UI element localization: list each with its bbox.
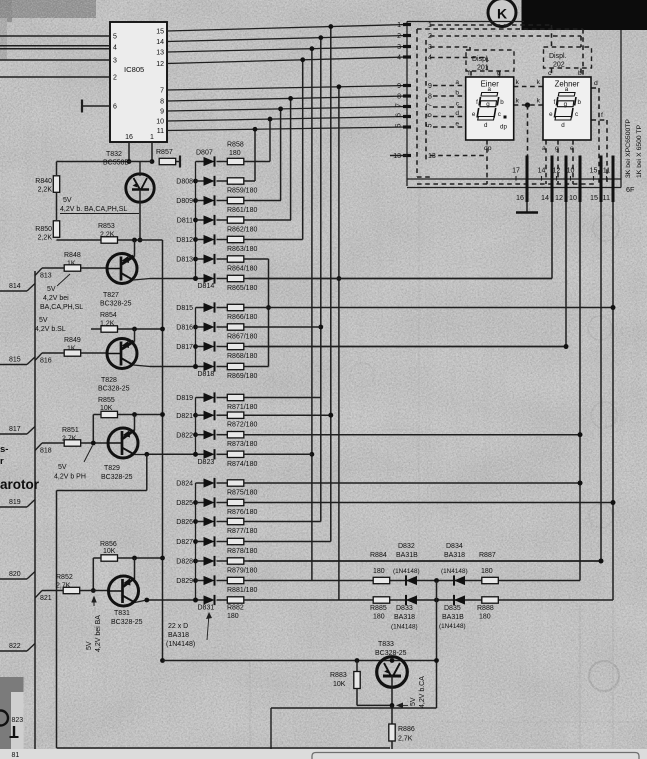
svg-text:7: 7 xyxy=(396,103,403,107)
svg-text:D822: D822 xyxy=(176,432,193,439)
node display input 2 xyxy=(403,34,411,37)
wire row output xyxy=(244,560,601,562)
svg-text:817: 817 xyxy=(9,426,21,433)
resistor R867 xyxy=(227,324,244,330)
wire row output xyxy=(244,326,321,328)
svg-text:d: d xyxy=(594,80,598,87)
svg-text:D823: D823 xyxy=(198,459,215,466)
wire segment drop from IC pin10 xyxy=(269,119,271,161)
wire segment drop from IC pin9 xyxy=(280,109,282,201)
wire segment drop from IC pin12 xyxy=(302,60,304,240)
diode D814 xyxy=(196,278,204,280)
wire row output xyxy=(244,580,580,582)
diode D812 xyxy=(196,239,204,241)
junction k common xyxy=(525,102,530,107)
wire T831 emitter to row D831 xyxy=(135,600,147,603)
diode D816 xyxy=(196,326,204,328)
resistor R879 xyxy=(227,558,244,564)
svg-text:dp: dp xyxy=(500,124,507,131)
wire row output xyxy=(244,397,321,399)
resistor R861 xyxy=(227,197,244,203)
svg-text:815: 815 xyxy=(9,357,21,364)
resistor R869 xyxy=(227,363,244,369)
diode D811 xyxy=(196,219,204,221)
svg-text:D835: D835 xyxy=(444,605,461,612)
svg-text:arotor: arotor xyxy=(0,477,40,492)
svg-text:R864/180: R864/180 xyxy=(227,266,257,273)
svg-text:BA31B: BA31B xyxy=(396,552,418,559)
diode D826 xyxy=(196,521,204,523)
svg-text:BA318: BA318 xyxy=(444,552,465,559)
node K circle xyxy=(488,0,516,27)
svg-text:K: K xyxy=(497,6,507,22)
svg-text:3: 3 xyxy=(113,58,117,65)
svg-text:5V: 5V xyxy=(47,286,56,293)
svg-text:22 x D: 22 x D xyxy=(168,623,188,630)
svg-text:d: d xyxy=(561,122,565,129)
svg-text:R876/180: R876/180 xyxy=(227,509,257,516)
svg-text:5V: 5V xyxy=(63,197,72,204)
svg-text:6F: 6F xyxy=(626,185,635,194)
node display input 3 xyxy=(403,45,411,48)
svg-text:D816: D816 xyxy=(176,325,193,332)
svg-text:4,2V b.CA: 4,2V b.CA xyxy=(419,676,426,708)
svg-text:81: 81 xyxy=(12,752,20,759)
dashed segment lines a-e into Displ.201 xyxy=(433,85,465,87)
wire diode anode bus xyxy=(195,162,197,279)
svg-text:7: 7 xyxy=(160,88,164,95)
wire R853 node to T827 collector and right rail xyxy=(118,239,163,241)
svg-text:5V: 5V xyxy=(58,464,67,471)
wire row output xyxy=(244,180,255,182)
svg-text:6: 6 xyxy=(427,113,434,117)
svg-text:12: 12 xyxy=(555,193,563,202)
svg-text:15: 15 xyxy=(590,168,598,175)
resistor R868 xyxy=(227,343,244,349)
wire R856 node xyxy=(118,557,163,559)
wires IC pins 15,14,13,12 to display inputs 1,2,3,4 xyxy=(167,25,407,32)
svg-text:Displ.: Displ. xyxy=(472,56,490,63)
svg-text:D831: D831 xyxy=(198,605,215,612)
ground at display pin 16 xyxy=(526,202,528,212)
svg-text:D826: D826 xyxy=(176,519,193,526)
node display input 7 xyxy=(403,105,411,108)
svg-text:R868/180: R868/180 xyxy=(227,353,257,360)
wire row output xyxy=(244,307,613,309)
svg-text:820: 820 xyxy=(9,571,21,578)
resistor R874 xyxy=(227,451,244,457)
resistor R857 xyxy=(159,158,176,164)
svg-text:10: 10 xyxy=(567,168,575,175)
svg-text:d: d xyxy=(455,110,459,117)
svg-text:9: 9 xyxy=(428,83,432,90)
diode D829 xyxy=(196,580,204,582)
wire base T831 xyxy=(80,590,110,592)
svg-text:R874/180: R874/180 xyxy=(227,461,257,468)
svg-text:e: e xyxy=(549,111,553,118)
svg-text:R863/180: R863/180 xyxy=(227,246,257,253)
svg-text:10K: 10K xyxy=(333,681,346,688)
svg-text:D815: D815 xyxy=(176,305,193,312)
diode D819 xyxy=(196,397,204,399)
svg-text:e: e xyxy=(472,111,476,118)
wire display pin 11 down xyxy=(612,202,614,600)
scan dark band top-left xyxy=(0,0,96,18)
svg-text:11: 11 xyxy=(603,193,610,202)
svg-text:9: 9 xyxy=(160,109,164,116)
svg-text:13: 13 xyxy=(156,50,164,57)
black panel top right xyxy=(522,0,647,30)
svg-text:14: 14 xyxy=(541,193,549,202)
svg-text:D832: D832 xyxy=(398,543,415,550)
sub-block outline bottom xyxy=(271,707,437,709)
svg-text:8: 8 xyxy=(397,94,401,101)
svg-text:T831: T831 xyxy=(114,610,130,617)
svg-text:T827: T827 xyxy=(103,292,119,299)
display pin 14 stub xyxy=(551,156,554,203)
wire segment bracket D813-D818 xyxy=(268,259,270,367)
op-amp/driver IC805 xyxy=(110,22,167,142)
resistor R875 xyxy=(227,480,244,486)
resistor R865 xyxy=(227,275,244,281)
wire right rail down to bottom bus xyxy=(162,240,164,661)
resistor R866 xyxy=(227,304,244,310)
svg-text:814: 814 xyxy=(9,283,21,290)
wire segment drop from IC pin8 xyxy=(290,98,292,220)
node display input 13 xyxy=(403,154,411,157)
svg-text:4,2V b.SL: 4,2V b.SL xyxy=(35,326,66,333)
dashed segment lines from inputs 1-4 xyxy=(430,24,552,26)
node display input 4 xyxy=(403,55,411,58)
svg-text:8: 8 xyxy=(160,99,164,106)
paper edge bottom xyxy=(0,749,647,759)
svg-text:D833: D833 xyxy=(396,605,413,612)
svg-text:(1N4148): (1N4148) xyxy=(166,641,195,648)
wire display pin 14 down to row D814 xyxy=(551,202,553,279)
svg-text:821: 821 xyxy=(40,595,52,602)
wire supply node xyxy=(57,161,153,163)
display pin 11 stub xyxy=(612,156,615,203)
svg-text:15: 15 xyxy=(156,29,164,36)
svg-text:2,2K: 2,2K xyxy=(38,187,53,194)
wire segment drop from IC pin14 xyxy=(320,38,322,522)
wire row output xyxy=(244,161,270,163)
svg-text:R873/180: R873/180 xyxy=(227,441,257,448)
svg-text:BA31B: BA31B xyxy=(442,614,464,621)
diode D808 xyxy=(196,180,204,182)
resistor R871 xyxy=(227,394,244,400)
svg-text:D814: D814 xyxy=(198,283,215,290)
svg-text:5V: 5V xyxy=(86,641,93,650)
svg-text:180: 180 xyxy=(373,568,385,575)
wire IC pin 2 xyxy=(0,76,110,78)
resistor R862 xyxy=(227,217,244,223)
svg-text:T829: T829 xyxy=(104,465,120,472)
junction D832/D834 column xyxy=(434,578,439,583)
svg-text:R871/180: R871/180 xyxy=(227,404,257,411)
svg-text:(1N4148): (1N4148) xyxy=(393,568,420,575)
svg-text:4,2V b. BA,CA,PH,SL: 4,2V b. BA,CA,PH,SL xyxy=(60,206,127,213)
svg-text:c: c xyxy=(498,111,501,118)
wire input 13 stub xyxy=(390,155,407,157)
wire R850 to R853 row xyxy=(56,239,58,241)
display Displ.201 Einer xyxy=(466,50,514,71)
svg-text:D825: D825 xyxy=(176,500,193,507)
svg-text:R867/180: R867/180 xyxy=(227,334,257,341)
svg-text:1: 1 xyxy=(150,134,154,141)
svg-text:b: b xyxy=(455,90,459,97)
wire IC pin16 down xyxy=(128,142,130,162)
diode D831 xyxy=(196,599,204,601)
svg-text:BA,CA,PH,SL: BA,CA,PH,SL xyxy=(40,304,83,311)
svg-text:16: 16 xyxy=(125,134,133,141)
svg-text:10K: 10K xyxy=(103,548,116,555)
svg-text:r: r xyxy=(0,456,4,467)
svg-text:816: 816 xyxy=(40,358,52,365)
svg-text:2,2K: 2,2K xyxy=(38,235,53,242)
svg-text:11: 11 xyxy=(603,168,610,175)
svg-text:g: g xyxy=(555,145,559,152)
svg-text:180: 180 xyxy=(373,614,385,621)
svg-text:R848: R848 xyxy=(64,252,81,259)
wire row output xyxy=(244,502,613,504)
svg-text:D813: D813 xyxy=(176,257,193,264)
svg-text:R840: R840 xyxy=(35,178,52,185)
wire row output xyxy=(244,599,613,601)
svg-text:4,2V bei: 4,2V bei xyxy=(43,295,69,302)
wire IC pin 4 (double) xyxy=(0,45,110,47)
svg-text:3: 3 xyxy=(397,44,401,51)
resistor R878 xyxy=(227,538,244,544)
display Displ.202 Zehner xyxy=(544,47,592,68)
svg-text:R862/180: R862/180 xyxy=(227,227,257,234)
svg-text:R854: R854 xyxy=(100,312,117,319)
wire base T829 xyxy=(81,442,108,444)
svg-text:R855: R855 xyxy=(98,397,115,404)
svg-text:813: 813 xyxy=(40,273,52,280)
svg-text:BA318: BA318 xyxy=(394,614,415,621)
wires IC pins 7,8,9,10,11 to display inputs 9,8,7,6,5 xyxy=(167,86,407,91)
svg-text:e: e xyxy=(455,121,459,128)
wire segment drop from IC pin7 xyxy=(338,87,340,600)
svg-text:k: k xyxy=(537,98,541,105)
wire bottom supply bus y660 xyxy=(163,660,437,662)
svg-text:d: d xyxy=(484,122,488,129)
wire T828 emitter to row D818 xyxy=(133,365,150,367)
wire segment drop from IC pin13 xyxy=(311,49,313,581)
diode D828 xyxy=(196,560,204,562)
resistor R873 xyxy=(227,432,244,438)
svg-text:5V: 5V xyxy=(410,697,417,706)
svg-text:13: 13 xyxy=(393,153,401,160)
svg-text:D808: D808 xyxy=(176,179,193,186)
wire T829 emitter return path xyxy=(146,454,148,490)
display pin 16 stub xyxy=(526,156,529,203)
svg-text:180: 180 xyxy=(481,568,493,575)
svg-text:R881/180: R881/180 xyxy=(227,587,257,594)
svg-text:k: k xyxy=(516,98,520,105)
svg-text:5: 5 xyxy=(427,123,434,127)
wire R854 node xyxy=(118,328,163,330)
resistor R858 xyxy=(227,158,244,164)
svg-text:R882: R882 xyxy=(227,605,244,612)
svg-text:D827: D827 xyxy=(176,539,193,546)
resistor R886 xyxy=(391,705,393,724)
dashed d,f lines right of Displ.202 xyxy=(592,87,600,89)
svg-text:12: 12 xyxy=(156,61,164,68)
resistor R872 xyxy=(227,412,244,418)
diode D807 xyxy=(196,161,204,163)
svg-text:D809: D809 xyxy=(176,198,193,205)
svg-text:g: g xyxy=(486,101,490,108)
svg-text:4: 4 xyxy=(113,45,117,52)
svg-text:c: c xyxy=(575,111,578,118)
svg-text:R872/180: R872/180 xyxy=(227,422,257,429)
svg-text:7: 7 xyxy=(427,103,434,107)
wire row output xyxy=(244,346,566,348)
diode D815 xyxy=(196,307,204,309)
wire IC pin 6 stub with terminator xyxy=(82,105,110,107)
resistor R876 xyxy=(227,499,244,505)
svg-text:2,7K: 2,7K xyxy=(398,736,413,743)
svg-text:D834: D834 xyxy=(446,543,463,550)
resistor R882 xyxy=(227,597,244,603)
wire row output xyxy=(244,453,312,455)
svg-text:2: 2 xyxy=(113,75,117,82)
svg-text:R877/180: R877/180 xyxy=(227,528,257,535)
wire diode anode bus xyxy=(195,308,197,367)
diode D821 xyxy=(196,414,204,416)
svg-text:R852: R852 xyxy=(56,574,73,581)
wire IC pin1 down xyxy=(151,142,153,162)
svg-text:BC558B: BC558B xyxy=(103,160,129,167)
svg-text:202: 202 xyxy=(553,62,565,69)
svg-text:D818: D818 xyxy=(198,371,215,378)
svg-text:R883: R883 xyxy=(330,672,347,679)
svg-text:10: 10 xyxy=(569,193,577,202)
resistor R864 xyxy=(227,256,244,262)
svg-text:R857: R857 xyxy=(156,149,173,156)
svg-text:2: 2 xyxy=(397,33,401,40)
diode D822 xyxy=(196,434,204,436)
wire display pin 15 down to row D828 xyxy=(600,202,602,561)
svg-text:a: a xyxy=(542,145,546,152)
resistor R877 xyxy=(227,518,244,524)
svg-text:dp: dp xyxy=(484,145,492,152)
svg-text:R885: R885 xyxy=(370,605,387,612)
diode D813 xyxy=(196,258,204,260)
svg-text:4,2V b PH: 4,2V b PH xyxy=(54,474,86,481)
diode D809 xyxy=(196,200,204,202)
svg-text:T828: T828 xyxy=(101,377,117,384)
dashed bus bottom xyxy=(417,183,595,185)
svg-text:5: 5 xyxy=(113,34,117,41)
svg-text:D819: D819 xyxy=(176,395,193,402)
svg-text:T832: T832 xyxy=(106,151,122,158)
wire R840-R850 xyxy=(56,193,58,220)
wire T827 emitter to row D814 xyxy=(133,279,150,281)
wire IC pin 3 xyxy=(0,59,110,61)
svg-text:D807: D807 xyxy=(196,149,213,156)
resistor R859 xyxy=(227,178,244,184)
diode D825 xyxy=(196,502,204,504)
svg-text:819: 819 xyxy=(9,499,21,506)
svg-text:16: 16 xyxy=(516,193,524,202)
svg-text:BC328-25: BC328-25 xyxy=(111,619,143,626)
wire row output xyxy=(244,200,281,202)
svg-text:13: 13 xyxy=(428,153,436,160)
svg-text:14: 14 xyxy=(538,168,546,175)
svg-text:IC805: IC805 xyxy=(124,65,144,74)
svg-text:a: a xyxy=(565,86,569,93)
svg-text:R850: R850 xyxy=(35,226,52,233)
svg-text:R849: R849 xyxy=(64,337,81,344)
terminator symbol xyxy=(13,726,15,737)
display pin 12 stub xyxy=(565,156,568,203)
svg-text:a: a xyxy=(455,79,459,86)
svg-text:g: g xyxy=(564,101,568,108)
svg-text:k: k xyxy=(516,79,520,86)
svg-text:823: 823 xyxy=(12,717,24,724)
svg-text:R875/180: R875/180 xyxy=(227,490,257,497)
trunk vertical 35 xyxy=(34,271,36,749)
svg-text:(1N4148): (1N4148) xyxy=(441,568,468,575)
svg-text:R878/180: R878/180 xyxy=(227,548,257,555)
svg-text:4,2V bei BA: 4,2V bei BA xyxy=(95,615,102,652)
svg-text:D828: D828 xyxy=(176,559,193,566)
svg-text:D829: D829 xyxy=(176,578,193,585)
node display input 8 xyxy=(403,94,411,97)
svg-text:9: 9 xyxy=(397,83,401,90)
svg-text:6: 6 xyxy=(396,113,403,117)
svg-text:201: 201 xyxy=(477,65,489,72)
svg-text:D817: D817 xyxy=(176,344,193,351)
wire T829 emitter to row D823 xyxy=(134,454,147,456)
wire row output xyxy=(244,219,291,221)
svg-text:(1N4148): (1N4148) xyxy=(391,624,418,631)
svg-text:T833: T833 xyxy=(378,641,394,648)
wire row output xyxy=(244,258,269,260)
svg-text:BC328-25: BC328-25 xyxy=(98,386,130,393)
svg-text:5V: 5V xyxy=(39,317,48,324)
svg-text:R888: R888 xyxy=(477,605,494,612)
corner of adjacent block xyxy=(0,677,24,749)
svg-text:17: 17 xyxy=(512,168,520,175)
node display input 6 xyxy=(403,115,411,118)
svg-text:8: 8 xyxy=(428,94,432,101)
svg-text:R879/180: R879/180 xyxy=(227,568,257,575)
svg-text:180: 180 xyxy=(229,150,241,157)
svg-text:b: b xyxy=(500,99,504,106)
diode D817 xyxy=(196,346,204,348)
display section frame xyxy=(407,21,524,23)
wire R855 node xyxy=(118,414,163,416)
resistor R840 xyxy=(56,162,58,176)
svg-text:5: 5 xyxy=(396,123,403,127)
svg-text:4: 4 xyxy=(397,55,401,62)
wire base T827 xyxy=(81,267,108,269)
wire IC pin 5 xyxy=(0,35,110,37)
wire display pin 12 down to row D817 xyxy=(565,202,567,347)
node display input 1 xyxy=(403,23,411,26)
svg-text:R853: R853 xyxy=(98,223,115,230)
wire diode anode bus xyxy=(195,483,197,600)
svg-text:3K bei XPC6500TP: 3K bei XPC6500TP xyxy=(625,119,632,178)
svg-text:f: f xyxy=(468,70,470,77)
wire row output xyxy=(244,482,580,484)
wire segment drop from IC pin15 xyxy=(330,27,332,542)
wire row output xyxy=(244,414,331,416)
